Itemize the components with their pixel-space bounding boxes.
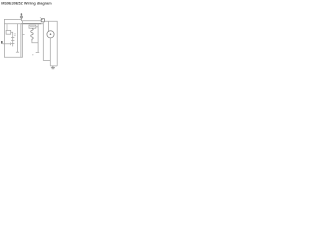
plug symbol xyxy=(1,41,3,44)
plug lead end tick xyxy=(9,43,11,46)
tap tick 2 xyxy=(11,40,14,42)
wire below motor xyxy=(49,38,51,66)
wire inner top bus xyxy=(4,23,43,25)
thermal cutout terminal dot xyxy=(21,13,23,15)
tap tick 3 xyxy=(11,42,14,44)
B2 inner text dash xyxy=(30,26,35,28)
svg-text:MS9E30E5Z Wiring diagram: MS9E30E5Z Wiring diagram xyxy=(1,0,52,5)
wire motor feed xyxy=(47,21,49,32)
wire cutout left link xyxy=(19,18,22,20)
tapped element vertical xyxy=(12,35,14,46)
faint label smudge xyxy=(32,54,33,55)
wire top bus to connector xyxy=(21,20,41,22)
tap tick 1 xyxy=(11,37,14,39)
B2 stub to V38 xyxy=(36,26,38,28)
leg V38 end tick xyxy=(36,51,40,53)
switch leg S1 end tick xyxy=(16,51,19,53)
relay box B2 xyxy=(29,25,36,28)
connector box K1 xyxy=(41,19,44,22)
wire coil to V38 xyxy=(32,41,38,43)
enclosure box left edge + bottom xyxy=(4,19,22,57)
K1 inner dot xyxy=(42,19,43,20)
leg V38 xyxy=(37,24,39,53)
component box B1 xyxy=(6,30,11,34)
wire bottom join xyxy=(50,65,57,67)
junction tick on pair xyxy=(22,33,24,35)
motor center dot xyxy=(50,33,52,35)
wire connector descender xyxy=(43,22,50,61)
wire plug lead xyxy=(3,43,11,45)
wire B1 top feed xyxy=(6,24,8,31)
ground symbol xyxy=(52,66,54,68)
switch leg S1 xyxy=(17,24,19,53)
wire top bus right xyxy=(44,21,57,66)
wire inner top bus dark segment xyxy=(22,23,42,25)
wire right-edge vertical pair xyxy=(20,24,22,58)
label dashes xyxy=(14,33,16,35)
thermal cutout bulb xyxy=(20,16,22,18)
heater coil element xyxy=(31,28,33,41)
wire B1 to tap element xyxy=(11,32,13,35)
K1 label dot xyxy=(39,16,42,19)
motor M circle xyxy=(47,31,54,38)
thermal cutout symbol stem xyxy=(20,14,22,21)
